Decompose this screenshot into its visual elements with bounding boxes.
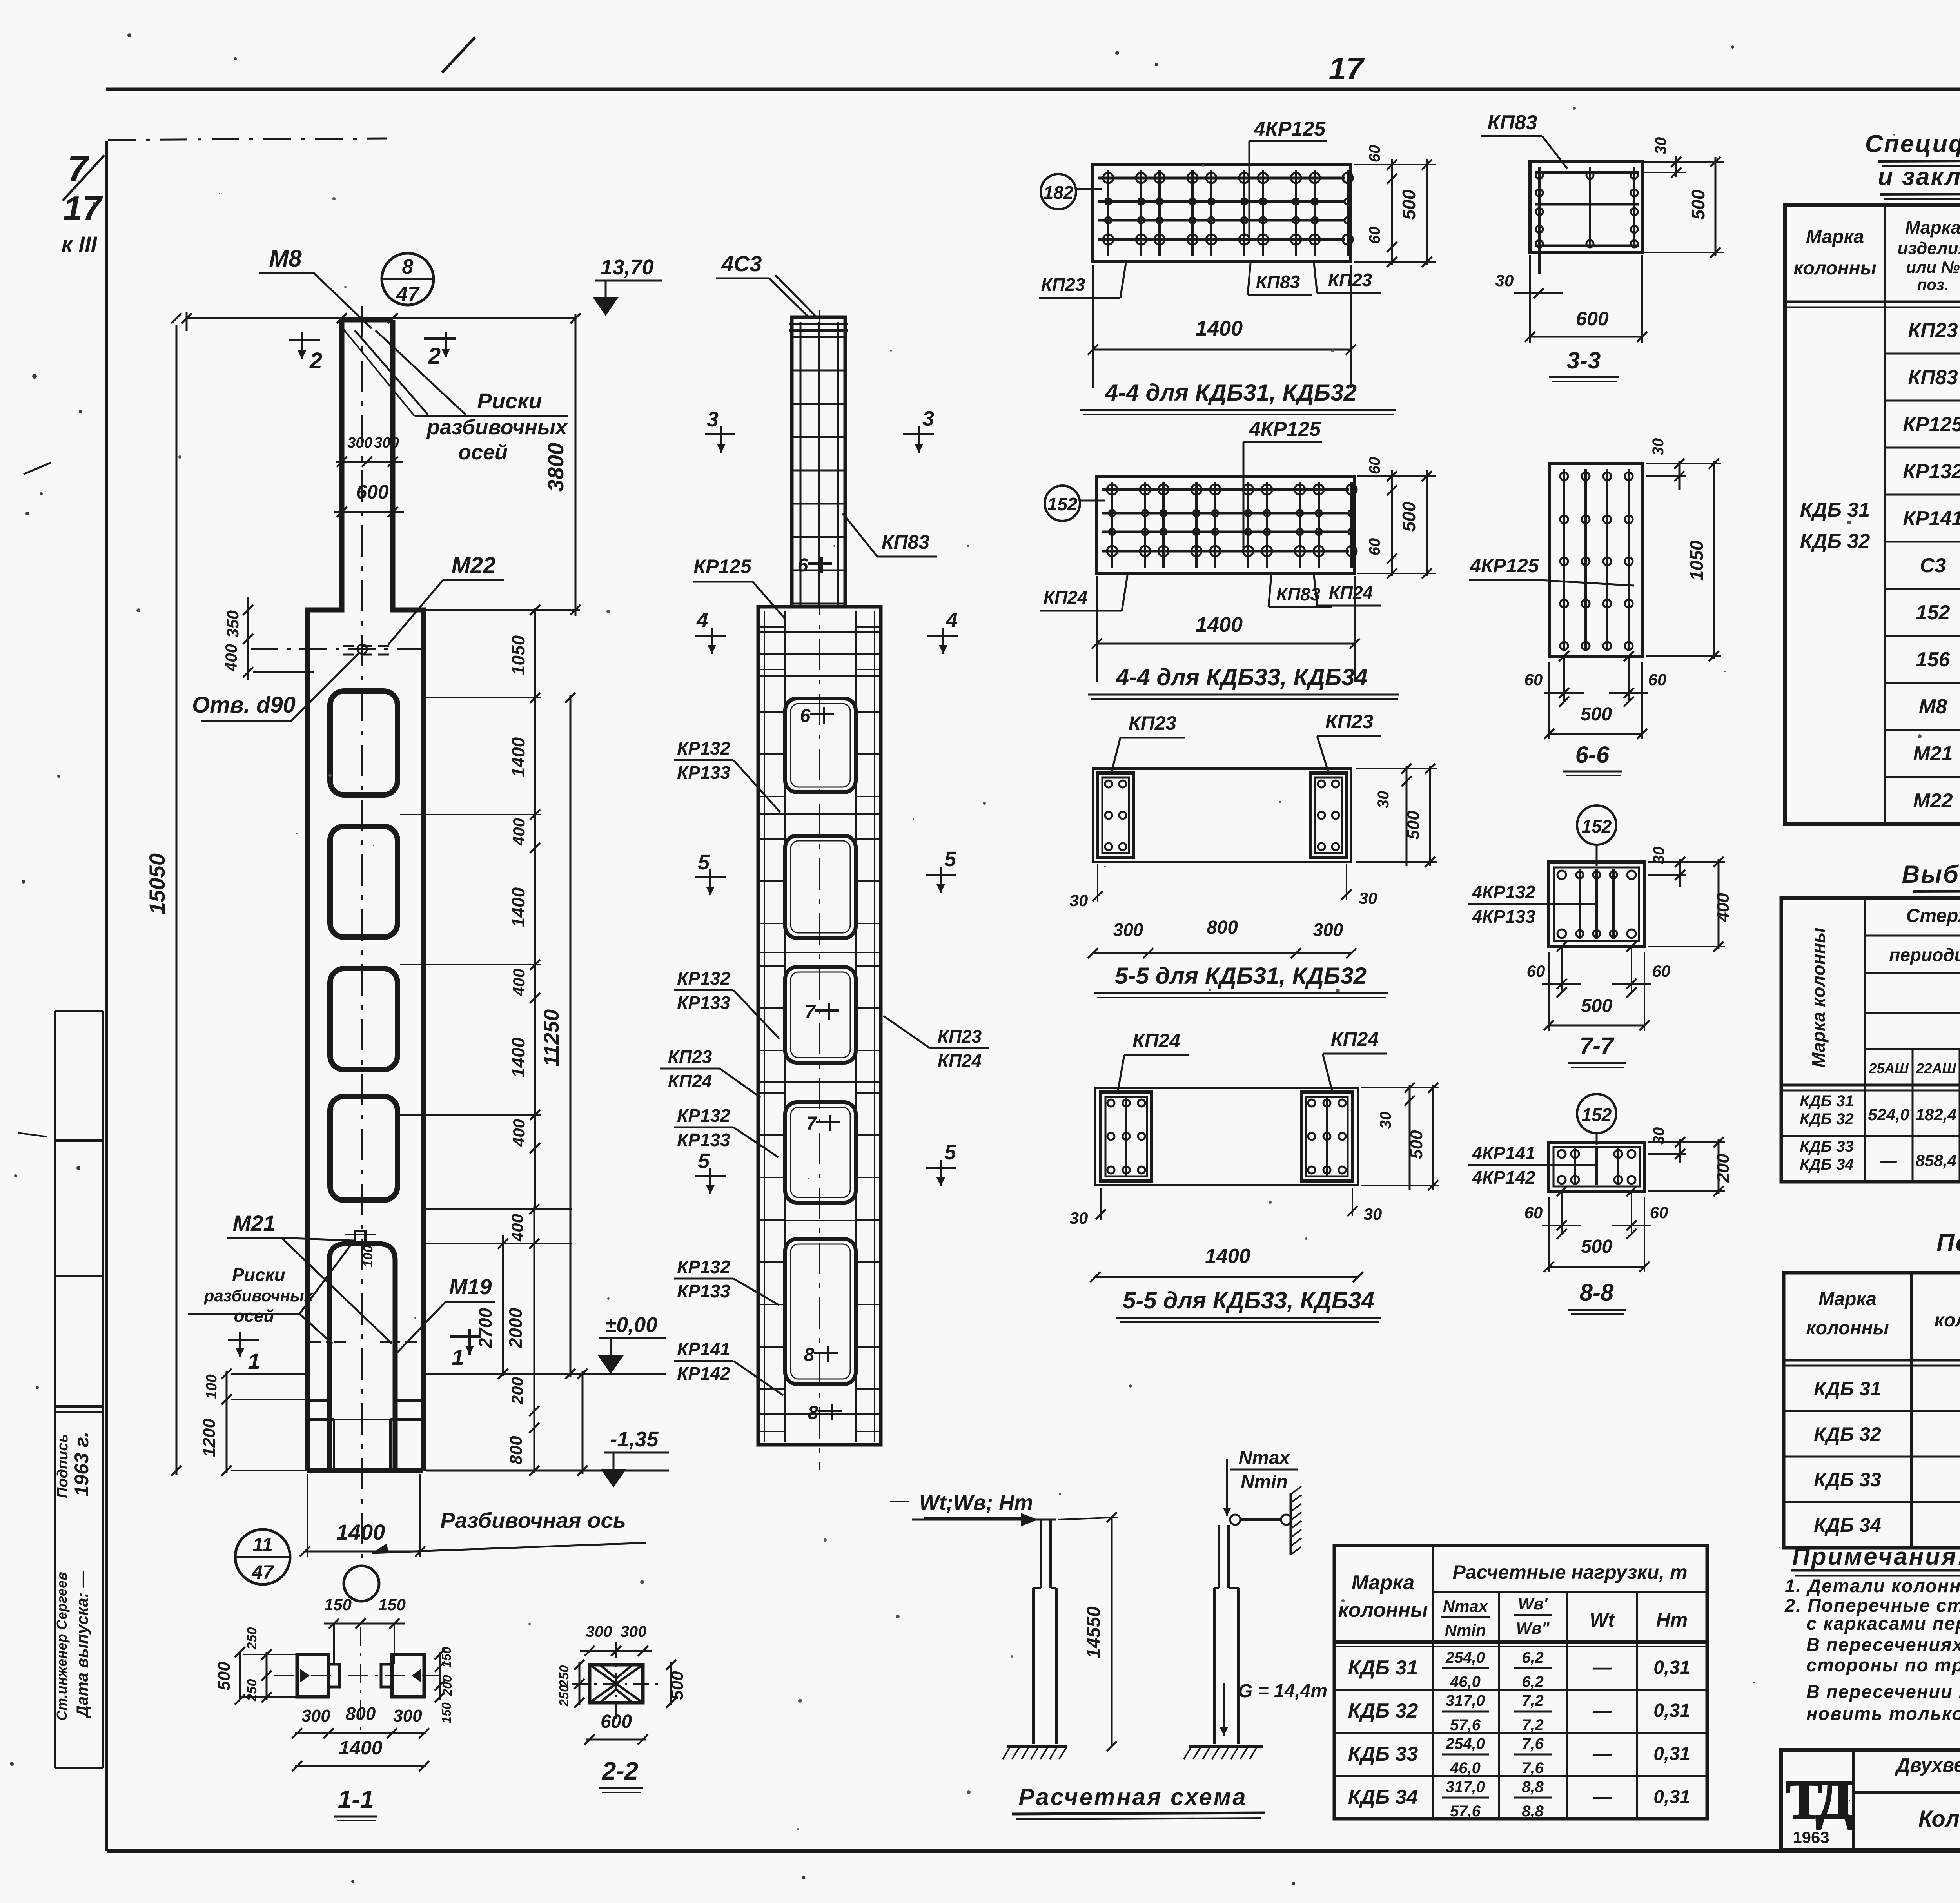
- svg-text:1963: 1963: [1793, 1828, 1829, 1847]
- section mark 2 left: [289, 339, 320, 341]
- svg-text:Nmax: Nmax: [1443, 1597, 1488, 1615]
- svg-text:800: 800: [506, 1436, 526, 1465]
- svg-text:-1,35: -1,35: [610, 1428, 659, 1451]
- svg-text:300: 300: [301, 1706, 330, 1725]
- svg-text:Nmax: Nmax: [1239, 1448, 1291, 1468]
- svg-text:8: 8: [808, 1402, 818, 1423]
- svg-text:400: 400: [510, 969, 528, 996]
- svg-text:254,0: 254,0: [1445, 1649, 1485, 1666]
- svg-text:5: 5: [698, 1149, 710, 1173]
- svg-text:4-4 для КДБ33, КДБ34: 4-4 для КДБ33, КДБ34: [1116, 664, 1368, 690]
- svg-text:60: 60: [1366, 457, 1383, 475]
- section mark 4 right: [927, 635, 958, 637]
- svg-text:Примечания:: Примечания:: [1792, 1543, 1960, 1570]
- dimension 3800 right side: [575, 314, 577, 616]
- section mark 4 left: [695, 635, 726, 637]
- svg-text:7,2: 7,2: [1522, 1716, 1544, 1734]
- section mark 5 left lower: [695, 1175, 726, 1177]
- sheet bottom border: [107, 1849, 1960, 1853]
- svg-text:разбивочных: разбивочных: [204, 1286, 314, 1305]
- dimension 11250: [570, 695, 572, 1377]
- svg-text:600: 600: [356, 481, 389, 503]
- svg-text:2: 2: [428, 343, 441, 369]
- scheme dim 14550: [1111, 1517, 1113, 1746]
- svg-text:колонны,: колонны,: [1935, 1310, 1960, 1331]
- svg-text:2000: 2000: [505, 1308, 526, 1348]
- hole Отв. d90: [358, 644, 367, 654]
- svg-text:200: 200: [1713, 1154, 1733, 1183]
- svg-text:КП23: КП23: [938, 1026, 982, 1047]
- svg-text:300: 300: [621, 1623, 647, 1640]
- svg-text:Отв. d90: Отв. d90: [192, 692, 296, 718]
- svg-text:57,6: 57,6: [1450, 1803, 1481, 1820]
- svg-text:КП23: КП23: [1041, 274, 1085, 295]
- svg-text:Выборка стали на одну коло: Выборка стали на одну колонну, кг: [1902, 861, 1960, 888]
- svg-text:8: 8: [804, 1344, 815, 1365]
- svg-text:М19: М19: [449, 1274, 492, 1299]
- svg-text:3: 3: [707, 408, 719, 431]
- svg-text:30: 30: [1375, 791, 1392, 809]
- detail circle 8/47: [382, 253, 434, 305]
- svg-text:М22: М22: [452, 553, 496, 578]
- svg-text:22АШ: 22АШ: [1916, 1060, 1956, 1076]
- svg-text:4КР133: 4КР133: [1472, 906, 1535, 927]
- svg-text:4: 4: [946, 608, 958, 632]
- svg-text:КП24: КП24: [938, 1050, 982, 1071]
- right dimension chain 1050/1400/400...: [534, 608, 536, 1209]
- svg-text:600: 600: [1576, 308, 1609, 330]
- svg-text:—: —: [1592, 1787, 1612, 1807]
- dimension 15050 far left: [176, 325, 178, 1475]
- svg-text:4КР142: 4КР142: [1472, 1167, 1535, 1188]
- svg-text:300: 300: [586, 1623, 612, 1640]
- svg-text:4КР125: 4КР125: [1249, 418, 1321, 441]
- svg-text:—: —: [1592, 1700, 1612, 1721]
- svg-text:2700: 2700: [475, 1308, 495, 1348]
- svg-text:КР132: КР132: [677, 1105, 730, 1126]
- svg-text:30: 30: [1652, 137, 1670, 155]
- specification table frame: [1785, 205, 1960, 824]
- svg-text:6-6: 6-6: [1575, 742, 1610, 768]
- svg-text:152: 152: [1582, 1105, 1612, 1125]
- svg-text:25АШ: 25АШ: [1868, 1060, 1909, 1076]
- svg-text:13,70: 13,70: [601, 256, 653, 279]
- upper shaft rungs: [793, 336, 844, 338]
- svg-text:В пересечениях ветвей с рядов: В пересечениях ветвей с рядовыми перемыч…: [1806, 1634, 1960, 1655]
- svg-text:колонны: колонны: [1793, 258, 1876, 279]
- svg-text:800: 800: [346, 1703, 376, 1724]
- title block frame: [1781, 1750, 1960, 1850]
- svg-text:С3: С3: [1920, 554, 1946, 577]
- inner section mark 7 in opening 4: [816, 1121, 840, 1123]
- svg-text:0,31: 0,31: [1653, 1787, 1690, 1807]
- steel table frame: [1781, 898, 1960, 1182]
- svg-text:Стержневая арматура по ГОСТ: Стержневая арматура по ГОСТ 5781-61: [1906, 905, 1960, 926]
- dimensions 350 400 left of shaft: [247, 597, 249, 680]
- svg-text:30: 30: [1650, 438, 1667, 456]
- svg-text:152: 152: [1582, 816, 1612, 836]
- steel table header horizontals: [1865, 935, 1960, 937]
- svg-text:11250: 11250: [540, 1009, 563, 1067]
- svg-text:поз.: поз.: [1917, 276, 1949, 294]
- svg-text:КП23: КП23: [1325, 711, 1374, 733]
- svg-text:8,8: 8,8: [1522, 1803, 1544, 1820]
- svg-text:500: 500: [1407, 1130, 1426, 1159]
- svg-text:М21: М21: [233, 1211, 276, 1235]
- svg-text:60: 60: [1648, 670, 1667, 689]
- section mark 5 left upper: [695, 876, 726, 878]
- section mark 5 right lower: [926, 1167, 956, 1169]
- svg-text:Риски: Риски: [477, 388, 542, 413]
- svg-text:0,31: 0,31: [1653, 1743, 1690, 1764]
- upper shaft cap bars: [789, 323, 848, 325]
- left stamp sidebar: [54, 1011, 56, 1768]
- svg-text:46,0: 46,0: [1450, 1760, 1481, 1777]
- floor level line: [426, 1373, 666, 1375]
- scan slash mark near top: [442, 37, 475, 73]
- svg-text:1200: 1200: [200, 1419, 219, 1457]
- svg-text:КДБ 32: КДБ 32: [1800, 530, 1870, 553]
- svg-text:156: 156: [1916, 648, 1951, 671]
- section mark 3 left: [705, 433, 735, 435]
- svg-text:11: 11: [252, 1534, 273, 1556]
- svg-text:Марка: Марка: [1352, 1571, 1415, 1594]
- svg-text:30: 30: [1377, 1112, 1394, 1129]
- svg-text:30: 30: [1495, 271, 1514, 290]
- design loads table frame: [1334, 1546, 1707, 1819]
- svg-text:60: 60: [1650, 1203, 1668, 1222]
- svg-text:400: 400: [510, 1119, 528, 1147]
- svg-text:КДБ 33: КДБ 33: [1800, 1138, 1853, 1155]
- svg-text:Дата выпуска: —: Дата выпуска: —: [73, 1571, 91, 1718]
- svg-text:8,8: 8,8: [1522, 1778, 1544, 1796]
- svg-text:1400: 1400: [508, 1037, 528, 1078]
- base ledge lines: [307, 1399, 329, 1402]
- section mark 1 left: [228, 1339, 259, 1341]
- svg-text:60: 60: [1366, 227, 1383, 244]
- inner section mark 7 in opening 3: [815, 1009, 839, 1012]
- svg-text:изделия: изделия: [1897, 239, 1960, 258]
- svg-text:Расчетные нагрузки, т: Расчетные нагрузки, т: [1452, 1561, 1687, 1583]
- svg-text:КДБ 31: КДБ 31: [1800, 499, 1870, 521]
- steel table small header cells: [1912, 1049, 1914, 1182]
- section 4-4 for КДБ33, КДБ34: rebar cage: [1097, 476, 1355, 573]
- scheme self-weight arrow G: [1223, 1683, 1225, 1736]
- svg-text:—: —: [1592, 1743, 1612, 1764]
- section 1-1: left branch: [297, 1654, 328, 1697]
- spec table row lines: [1885, 353, 1960, 355]
- svg-text:КП23: КП23: [1908, 319, 1958, 342]
- svg-text:300: 300: [393, 1706, 422, 1725]
- svg-text:КР141: КР141: [1903, 507, 1960, 530]
- reinforced column view: narrow upper shaft: [792, 317, 845, 607]
- svg-text:4КР125: 4КР125: [1254, 118, 1326, 140]
- svg-text:250: 250: [557, 1665, 571, 1687]
- svg-text:17: 17: [63, 189, 103, 228]
- svg-text:1400: 1400: [1196, 317, 1243, 340]
- svg-text:1: 1: [452, 1345, 464, 1370]
- svg-text:1-1: 1-1: [338, 1785, 374, 1813]
- svg-text:400: 400: [222, 644, 240, 672]
- svg-text:150: 150: [378, 1595, 406, 1614]
- svg-text:1400: 1400: [508, 887, 528, 927]
- svg-text:30: 30: [1070, 1209, 1088, 1227]
- svg-text:250: 250: [245, 1679, 260, 1702]
- svg-text:колонны: колонны: [1806, 1318, 1889, 1339]
- svg-text:1050: 1050: [1686, 540, 1707, 581]
- svg-text:100: 100: [203, 1374, 220, 1399]
- reinforcement rungs in link zones: [760, 631, 879, 633]
- svg-text:0,31: 0,31: [1653, 1700, 1690, 1721]
- leader lines to axis marks: [355, 330, 428, 415]
- marker circle 182: [1041, 174, 1076, 209]
- svg-text:Марка колонны: Марка колонны: [1808, 927, 1829, 1067]
- svg-text:КР132: КР132: [677, 1257, 730, 1277]
- branch inner edges: [784, 611, 786, 1442]
- svg-text:524,0: 524,0: [1868, 1105, 1909, 1124]
- svg-text:КР141: КР141: [677, 1339, 730, 1359]
- svg-text:60: 60: [1366, 538, 1383, 556]
- column vertical axis line: [361, 306, 363, 1566]
- section 2-2: square with cross pattern: [590, 1665, 643, 1703]
- svg-text:1050: 1050: [508, 635, 528, 675]
- scheme wall support with hatch: [1290, 1493, 1292, 1555]
- svg-text:КП83: КП83: [882, 531, 930, 553]
- svg-text:КП83: КП83: [1276, 584, 1321, 604]
- svg-text:КП24: КП24: [1132, 1030, 1180, 1052]
- svg-text:осей: осей: [234, 1306, 274, 1326]
- svg-text:Марка: Марка: [1818, 1289, 1877, 1310]
- inner section mark 6 in opening 1: [810, 713, 834, 715]
- detail circle 11/47: [235, 1529, 290, 1584]
- svg-text:КП83: КП83: [1256, 272, 1300, 292]
- svg-text:400: 400: [510, 818, 528, 846]
- svg-text:новить только взамен вырез: новить только взамен вырезанных стержней…: [1806, 1703, 1960, 1724]
- svg-text:200: 200: [440, 1675, 454, 1696]
- inner section mark 8 in opening 5: [814, 1352, 838, 1354]
- svg-text:250: 250: [557, 1685, 571, 1707]
- svg-text:КДБ 32: КДБ 32: [1348, 1700, 1418, 1722]
- svg-text:7-7: 7-7: [1580, 1032, 1615, 1059]
- svg-text:КП23: КП23: [1129, 712, 1177, 734]
- svg-text:КР132: КР132: [677, 738, 730, 758]
- steel table main verticals: [1864, 898, 1866, 1182]
- svg-text:500: 500: [1399, 189, 1419, 220]
- svg-text:7,6: 7,6: [1522, 1735, 1544, 1752]
- risk dash-dot marks on base sides: [309, 1341, 346, 1343]
- indicators table header separator: [1784, 1359, 1960, 1362]
- inner section mark 8 at column foot: [818, 1410, 842, 1412]
- section 4-4 #1 right dims: [1391, 159, 1393, 265]
- svg-text:КДБ 32: КДБ 32: [1814, 1423, 1881, 1445]
- svg-text:М8: М8: [1919, 695, 1947, 718]
- section mark 2 right: [424, 337, 456, 340]
- svg-text:150: 150: [324, 1595, 352, 1614]
- svg-text:и закладных элементов на о: и закладных элементов на одну колонну: [1878, 163, 1960, 190]
- svg-text:250: 250: [245, 1627, 260, 1650]
- svg-text:4КР132: 4КР132: [1472, 882, 1535, 902]
- svg-text:500: 500: [668, 1671, 687, 1700]
- svg-text:разбивочных: разбивочных: [426, 415, 568, 439]
- svg-text:1400: 1400: [508, 737, 528, 777]
- svg-text:КР132: КР132: [1903, 460, 1960, 483]
- svg-text:47: 47: [396, 283, 420, 306]
- svg-text:М22: М22: [1913, 789, 1953, 812]
- svg-text:317,0: 317,0: [1446, 1692, 1485, 1709]
- svg-text:Подпись: Подпись: [54, 1434, 71, 1498]
- section mark 3 right: [903, 433, 934, 435]
- svg-text:КДБ 31: КДБ 31: [1348, 1656, 1418, 1679]
- svg-text:—: —: [1880, 1151, 1897, 1170]
- section 2-2 left dims 250 250: [579, 1662, 581, 1705]
- svg-text:КП24: КП24: [1044, 587, 1088, 608]
- svg-text:300: 300: [1313, 920, 1343, 940]
- right dimension chain 400/2000/200/800 at base: [534, 1206, 535, 1473]
- long leader from M21 to right risk mark: [281, 1238, 392, 1344]
- svg-text:Марка: Марка: [1806, 227, 1864, 247]
- svg-text:КР133: КР133: [677, 1130, 730, 1150]
- section 4-4 #2 right dims: [1391, 470, 1393, 576]
- svg-text:6,2: 6,2: [1522, 1673, 1544, 1691]
- svg-text:17: 17: [1329, 51, 1365, 86]
- svg-text:ТД: ТД: [1786, 1769, 1853, 1830]
- svg-text:КП83: КП83: [1487, 111, 1537, 134]
- svg-text:600: 600: [601, 1711, 632, 1732]
- svg-text:400: 400: [1713, 893, 1733, 922]
- svg-text:КП24: КП24: [668, 1071, 712, 1091]
- branch rungs along full height: [758, 626, 785, 628]
- column openings (4 rounded rectangles): [330, 691, 397, 795]
- section 5-5 for КДБ31, КДБ32: [1093, 769, 1351, 862]
- section 1-1: right branch: [392, 1654, 424, 1697]
- svg-text:400: 400: [508, 1214, 526, 1242]
- svg-text:4С3: 4С3: [721, 251, 762, 276]
- svg-text:Wв": Wв": [1516, 1619, 1550, 1637]
- svg-text:30: 30: [1359, 889, 1377, 907]
- svg-text:Wt: Wt: [1590, 1609, 1615, 1631]
- svg-text:1. Детали колонн см. лис: 1. Детали колонн см. листы 47, 48 и 49.: [1785, 1575, 1960, 1596]
- svg-text:300: 300: [1113, 920, 1143, 940]
- svg-text:М21: М21: [1913, 742, 1953, 765]
- svg-text:60: 60: [1524, 1203, 1543, 1222]
- svg-text:46,0: 46,0: [1450, 1673, 1481, 1691]
- steel table double separator: [1781, 1084, 1960, 1087]
- svg-text:КДБ 33: КДБ 33: [1814, 1469, 1881, 1491]
- svg-text:47: 47: [251, 1561, 274, 1583]
- svg-text:5: 5: [698, 851, 710, 874]
- svg-text:300: 300: [374, 435, 399, 451]
- section mark 5 right upper: [926, 874, 956, 876]
- svg-text:КДБ 32: КДБ 32: [1800, 1110, 1853, 1128]
- svg-text:1: 1: [248, 1349, 260, 1373]
- svg-text:периодического профиля: периодического профиля: [1889, 945, 1960, 965]
- svg-text:14550: 14550: [1083, 1606, 1104, 1659]
- svg-text:0,31: 0,31: [1653, 1657, 1690, 1678]
- svg-text:6: 6: [800, 706, 811, 726]
- svg-text:В пересечении ветвей с верх: В пересечении ветвей с верхней и нижней …: [1806, 1681, 1960, 1702]
- scan noise specks in margins: [32, 374, 37, 379]
- openings in reinforced view: [785, 698, 856, 792]
- base top center mark M21 detail: [355, 1231, 365, 1244]
- svg-text:3-3: 3-3: [1567, 347, 1601, 374]
- svg-text:150: 150: [439, 1647, 454, 1668]
- svg-text:Показатели на одну колонну: Показатели на одну колонну: [1936, 1229, 1960, 1257]
- svg-text:5: 5: [944, 1141, 956, 1164]
- svg-text:осей: осей: [458, 441, 508, 464]
- svg-text:1400: 1400: [1196, 613, 1243, 637]
- svg-text:7: 7: [806, 1113, 818, 1134]
- svg-text:КР125: КР125: [693, 555, 752, 577]
- svg-text:КП23: КП23: [668, 1047, 712, 1067]
- svg-text:100: 100: [361, 1245, 376, 1268]
- svg-text:к III: к III: [62, 232, 98, 256]
- svg-text:7: 7: [805, 1002, 816, 1023]
- svg-text:152: 152: [1916, 601, 1950, 624]
- svg-text:с каркасами перемычек .: с каркасами перемычек .: [1806, 1613, 1960, 1634]
- svg-text:Ст.инженер Сергеев: Ст.инженер Сергеев: [54, 1572, 70, 1721]
- svg-text:57,6: 57,6: [1450, 1716, 1481, 1734]
- sheet left border: [105, 141, 108, 1851]
- outer level dimension line at base right: [582, 1371, 584, 1474]
- svg-text:Wt;Wв; Нт: Wt;Wв; Нт: [919, 1491, 1033, 1515]
- svg-text:7,6: 7,6: [1522, 1760, 1544, 1777]
- base of column: embedded part outline: [329, 1244, 395, 1471]
- section 1-1 left dims 250 250 500: [266, 1652, 268, 1700]
- svg-text:Риски: Риски: [232, 1264, 285, 1285]
- svg-text:Двухветвевые колонны одноэт: Двухветвевые колонны одноэтажных бескран…: [1895, 1755, 1960, 1776]
- scheme right ground hatch: [1189, 1745, 1263, 1748]
- marker circle 152: [1045, 486, 1080, 521]
- section 1-1 right dims 150 200 150: [439, 1652, 441, 1700]
- svg-text:858,4: 858,4: [1915, 1151, 1956, 1170]
- svg-text:3800: 3800: [543, 443, 568, 492]
- svg-text:3: 3: [922, 407, 934, 430]
- svg-text:317,0: 317,0: [1446, 1778, 1485, 1796]
- svg-text:350: 350: [223, 610, 242, 638]
- svg-text:5-5 для КДБ31, КДБ32: 5-5 для КДБ31, КДБ32: [1115, 963, 1367, 989]
- svg-text:М8: М8: [269, 245, 302, 272]
- svg-text:КДБ 34: КДБ 34: [1800, 1156, 1853, 1173]
- svg-text:КР132: КР132: [677, 968, 730, 989]
- svg-text:КР133: КР133: [677, 992, 730, 1013]
- svg-text:Нт: Нт: [1656, 1609, 1688, 1631]
- svg-text:КР142: КР142: [677, 1363, 730, 1384]
- svg-text:КР125: КР125: [1903, 413, 1960, 436]
- svg-text:колонны: колонны: [1338, 1599, 1428, 1622]
- svg-text:Nmin: Nmin: [1241, 1472, 1288, 1493]
- svg-text:КР133: КР133: [677, 762, 730, 783]
- column elevation: narrow upper shaft outline: [342, 317, 393, 323]
- svg-text:182,4: 182,4: [1915, 1105, 1956, 1124]
- scheme left column stick: [1040, 1520, 1042, 1588]
- svg-text:Wв': Wв': [1518, 1595, 1548, 1613]
- scheme pinned top link: [1230, 1515, 1240, 1525]
- svg-text:200: 200: [508, 1377, 526, 1405]
- svg-text:1400: 1400: [336, 1520, 385, 1544]
- svg-text:152: 152: [1047, 494, 1078, 514]
- section 7-7: rebar cage: [1577, 805, 1616, 845]
- section 4-4 for КДБ31, КДБ32: rebar cage: [1093, 165, 1351, 262]
- column axis: [819, 310, 820, 1470]
- svg-text:4КР125: 4КР125: [1470, 555, 1539, 577]
- svg-text:4КР141: 4КР141: [1472, 1143, 1535, 1163]
- svg-text:±0,00: ±0,00: [605, 1313, 658, 1337]
- svg-text:254,0: 254,0: [1445, 1735, 1485, 1752]
- left dimensions 100/1200 at base: [226, 1371, 228, 1473]
- svg-text:60: 60: [1527, 962, 1545, 980]
- svg-text:500: 500: [1399, 501, 1419, 532]
- svg-text:60: 60: [1524, 670, 1543, 689]
